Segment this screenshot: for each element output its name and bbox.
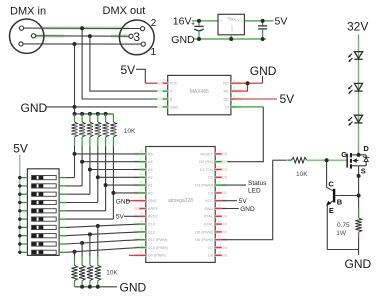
svg-text:GND: GND — [116, 198, 131, 205]
wire DMX data 2 (XLR pin3) — [36, 35, 129, 37]
wire switch 4 to pin A2 — [66, 202, 98, 204]
atmega pin A0 (left) — [134, 191, 146, 194]
svg-text:A0: A0 — [148, 191, 153, 195]
svg-text:XTAL: XTAL — [204, 215, 213, 219]
atmega pin A3 (left) — [134, 168, 146, 171]
svg-text:18: 18 — [139, 227, 143, 231]
svg-text:22: 22 — [139, 196, 143, 200]
atmega pin D9 (PWM) (left) — [134, 254, 146, 257]
svg-text:32V: 32V — [347, 19, 368, 33]
wire switch 3 to pin A3 — [66, 193, 90, 195]
svg-text:MAX485: MAX485 — [190, 89, 209, 95]
wire switch 8 to pin D12 — [66, 232, 140, 236]
svg-text:20: 20 — [139, 211, 143, 215]
DIP switch S1 — [27, 169, 59, 256]
resistor R6 10K — [112, 114, 114, 122]
svg-text:D2: D2 — [208, 176, 213, 180]
LED D3 — [354, 115, 362, 122]
red wire atmega D9 — [129, 254, 139, 256]
svg-text:10K: 10K — [296, 171, 308, 178]
svg-text:XTAL: XTAL — [204, 223, 213, 227]
switch 10 — [20, 251, 28, 253]
svg-text:GND: GND — [205, 207, 214, 211]
svg-text:21: 21 — [139, 203, 143, 207]
svg-text:1: 1 — [150, 46, 156, 58]
MOSFET Q1 channel — [350, 153, 352, 157]
svg-text:GND: GND — [171, 34, 195, 46]
svg-text:5V: 5V — [275, 15, 288, 27]
switch 3 — [20, 193, 28, 195]
wire DMX data 1 (XLR pin2) — [24, 27, 141, 29]
svg-text:DMX out: DMX out — [103, 5, 146, 17]
wire switch 6 to pin A0 — [66, 218, 114, 220]
svg-text:OUT: OUT — [236, 19, 242, 23]
wire switch 1 to pin A5 — [66, 177, 75, 179]
atmega pin D8 (right) — [215, 254, 227, 257]
resistor R7 10K (pull-down) — [97, 226, 99, 257]
MAX485 pin DI — [231, 105, 241, 108]
transistor Q2 base wire — [335, 195, 358, 197]
wire switch 7 to pin D13 — [66, 224, 140, 227]
wire 5V rail — [19, 155, 21, 253]
svg-text:D13: D13 — [148, 223, 155, 227]
wire switch 5 to pin A1 — [66, 210, 106, 212]
atmega pin D11 (PWM) (left) — [134, 238, 146, 241]
switch 5 — [20, 210, 28, 212]
wire RE join — [236, 83, 248, 91]
atmega pin D1 (TX) (right) — [215, 168, 227, 171]
svg-text:GND: GND — [240, 206, 255, 213]
atmega pin D13 (left) — [134, 223, 146, 226]
atmega pin D12 (left) — [134, 230, 146, 233]
svg-text:D10 (PWM): D10 (PWM) — [148, 246, 169, 250]
svg-text:3: 3 — [133, 30, 140, 44]
wire 5V label to MAX485 VCC — [136, 69, 145, 83]
MAX485 pin RE — [231, 90, 241, 93]
wire DMX shield (XLR pin1) — [23, 43, 141, 45]
svg-text:10: 10 — [218, 219, 222, 223]
resistor R10 10K (pull-down) — [74, 252, 76, 257]
svg-text:5V: 5V — [116, 214, 125, 221]
wire to MAX485 B — [82, 28, 163, 99]
svg-text:A: A — [170, 90, 173, 94]
GND label (atmega left) — [126, 200, 139, 202]
MOSFET Q1 gate bar — [346, 154, 348, 168]
IC U2 MAX485 — [168, 75, 231, 114]
atmega pin RESET (right) — [215, 152, 227, 155]
svg-text:GND: GND — [250, 64, 277, 78]
resistor R9 10K (pull-down) — [81, 243, 83, 257]
svg-text:A3: A3 — [148, 168, 153, 172]
svg-text:D1 (TX): D1 (TX) — [200, 168, 214, 172]
svg-text:DE: DE — [224, 98, 230, 102]
svg-text:B: B — [337, 198, 343, 207]
switch 4 — [20, 202, 28, 204]
svg-text:19: 19 — [139, 219, 143, 223]
switch 2 — [20, 185, 28, 187]
svg-text:10K: 10K — [124, 128, 136, 135]
svg-text:G: G — [341, 150, 347, 159]
svg-text:RESET: RESET — [200, 152, 213, 156]
svg-text:Status: Status — [248, 180, 267, 187]
wire switch 2 to pin A4 — [66, 185, 83, 187]
wire shield to GND bus — [74, 44, 76, 114]
junction dots DMX — [80, 26, 84, 30]
regulator U3 7805 — [218, 14, 244, 35]
LED D2 — [354, 83, 362, 90]
wire atmega GND to GND — [222, 208, 239, 210]
svg-text:23: 23 — [139, 188, 143, 192]
svg-text:GND: GND — [148, 199, 157, 203]
MAX485 pin B — [157, 98, 167, 101]
svg-text:E: E — [329, 206, 334, 215]
atmega pin D2 (right) — [215, 176, 227, 179]
net highlight DMX data wires — [44, 26, 129, 31]
wire atmega D6 to gate resistor — [222, 160, 273, 240]
resistor R1 10K — [74, 114, 76, 122]
svg-text:DI: DI — [225, 105, 229, 109]
svg-text:GND: GND — [21, 101, 48, 115]
resistor R11 10K (gate) — [273, 159, 288, 161]
svg-text:D4: D4 — [208, 191, 213, 195]
atmega pin A2 (left) — [134, 176, 146, 179]
svg-text:17: 17 — [139, 235, 143, 239]
switch 9 — [20, 243, 28, 245]
svg-text:S: S — [361, 167, 366, 176]
atmega pin D5 (PWM) (right) — [215, 230, 227, 233]
wire DE to 5V — [236, 98, 277, 100]
MAX485 pin A — [157, 90, 167, 93]
svg-text:VCC: VCC — [205, 199, 213, 203]
wire emitter to sense resistor / GND — [327, 249, 358, 251]
MAX485 pin VCC — [157, 82, 167, 85]
atmega pin A1 (left) — [134, 184, 146, 187]
svg-text:24: 24 — [139, 180, 143, 184]
wire regulator ground rail — [194, 38, 266, 40]
svg-text:D7: D7 — [208, 246, 213, 250]
svg-text:2: 2 — [151, 18, 157, 29]
wire atmega VCC to 5V — [222, 200, 237, 202]
svg-text:IN: IN — [220, 19, 223, 23]
wire switch 10 to pin D10 — [66, 248, 140, 253]
atmega pin D10 (PWM) (left) — [134, 246, 146, 249]
wire RO to GND — [236, 82, 263, 84]
top pull-down bus — [75, 113, 114, 115]
svg-text:atmega328: atmega328 — [168, 198, 193, 204]
resistor R5 10K — [105, 114, 107, 122]
resistor R12 0.75 1W — [358, 207, 360, 218]
atmega pin AREF (left) — [134, 207, 146, 210]
resistor R2 10K — [81, 114, 83, 122]
wire gate node to collector — [327, 160, 334, 191]
wire DI to atmega D0 — [236, 106, 263, 108]
svg-text:25: 25 — [139, 172, 143, 176]
svg-text:RE: RE — [224, 90, 230, 94]
svg-text:5V: 5V — [239, 198, 248, 205]
svg-text:LED: LED — [248, 188, 261, 195]
svg-text:C: C — [328, 180, 334, 189]
svg-text:D11 (PWM): D11 (PWM) — [148, 238, 168, 242]
atmega pin VCC (right) — [215, 199, 227, 202]
svg-text:15: 15 — [139, 250, 143, 254]
resistor R8 10K (pull-down) — [89, 234, 91, 256]
atmega pin A4 (left) — [134, 160, 146, 163]
svg-text:RO: RO — [223, 82, 229, 86]
wire GND label to MAX485 GND — [46, 106, 163, 108]
resistor R3 10K — [89, 114, 91, 122]
capacitor C2 (output) — [262, 21, 264, 26]
wire to MAX485 A — [90, 36, 163, 91]
svg-text:A4: A4 — [148, 160, 153, 164]
atmega pin AVCC (left) — [134, 215, 146, 218]
svg-text:5V: 5V — [13, 141, 28, 155]
svg-text:D9 (PWM): D9 (PWM) — [148, 254, 166, 258]
svg-text:AVCC: AVCC — [148, 215, 159, 219]
svg-text:5V: 5V — [121, 63, 136, 77]
svg-text:D: D — [363, 144, 369, 153]
svg-text:78xx: 78xx — [227, 17, 237, 22]
svg-text:GND: GND — [230, 25, 234, 33]
svg-text:GND: GND — [345, 257, 372, 271]
wire gate resistor to MOSFET gate — [307, 159, 347, 162]
svg-text:16V: 16V — [173, 15, 192, 27]
LED D1 — [354, 52, 362, 59]
switch 1 — [20, 177, 28, 179]
wire regulator output 5V — [244, 20, 273, 22]
bottom pull-down bus — [75, 286, 118, 288]
svg-text:11: 11 — [218, 227, 221, 231]
svg-text:16: 16 — [139, 242, 143, 246]
atmega pin D0 (RX) (right) — [215, 160, 227, 163]
XLR connector J1 DMX in — [10, 19, 44, 53]
svg-text:D12: D12 — [148, 230, 155, 234]
svg-text:1W: 1W — [336, 230, 347, 237]
svg-text:B: B — [170, 98, 173, 102]
atmega pin D3 (PWM) (right) — [215, 184, 227, 187]
svg-text:D8: D8 — [208, 254, 213, 258]
svg-text:D6 (PWM): D6 (PWM) — [195, 238, 213, 242]
svg-text:A1: A1 — [148, 184, 153, 188]
MOSFET Q1 source link — [352, 165, 366, 167]
capacitor C1 (input, polarized) — [198, 21, 200, 27]
svg-text:0.75: 0.75 — [337, 222, 350, 229]
MOSFET Q1 body diode — [365, 155, 367, 166]
svg-text:14: 14 — [218, 250, 222, 254]
atmega pin D6 (PWM) (right) — [215, 238, 227, 241]
svg-text:28: 28 — [139, 149, 143, 153]
atmega pin D7 (right) — [215, 246, 227, 249]
svg-text:GND: GND — [170, 105, 179, 109]
svg-text:GND: GND — [120, 281, 147, 295]
switch 7 — [20, 226, 28, 228]
wire switch 9 to pin D11 — [66, 240, 140, 244]
wire atmega D3 to status LED — [222, 184, 246, 186]
transistor Q2 emitter — [327, 201, 333, 250]
atmega pin XTAL (right) — [215, 215, 227, 218]
IC U1 atmega328 — [146, 147, 215, 263]
svg-text:5V: 5V — [280, 92, 295, 106]
svg-text:DMX in: DMX in — [10, 6, 46, 18]
svg-text:A2: A2 — [148, 176, 153, 180]
svg-text:D5 (PWM): D5 (PWM) — [195, 230, 213, 234]
MOSFET Q1 body arrow — [352, 158, 357, 162]
svg-text:10K: 10K — [106, 270, 118, 277]
transistor Q2 base bar — [333, 189, 335, 203]
svg-text:27: 27 — [139, 157, 143, 161]
atmega pin GND (left) — [134, 199, 146, 202]
svg-text:D3 (PWM): D3 (PWM) — [195, 184, 213, 188]
atmega pin GND (right) — [215, 207, 227, 210]
5V label (atmega AVCC) — [124, 215, 139, 217]
switch 6 — [20, 218, 28, 220]
atmega pin XTAL (right) — [215, 223, 227, 226]
atmega pin D4 (right) — [215, 191, 227, 194]
svg-text:26: 26 — [139, 164, 143, 168]
svg-text:A5: A5 — [148, 152, 153, 156]
svg-text:13: 13 — [218, 242, 222, 246]
XLR connector J2 DMX out — [119, 20, 154, 55]
MAX485 pin GND — [157, 105, 167, 108]
svg-text:12: 12 — [218, 235, 222, 239]
atmega pin A5 (left) — [134, 152, 146, 155]
MAX485 pin DE — [231, 98, 241, 101]
junction dots regulator — [197, 19, 201, 23]
svg-text:D0 (RX): D0 (RX) — [199, 160, 213, 164]
svg-text:VCC: VCC — [170, 82, 178, 86]
resistor R4 10K — [97, 114, 99, 122]
MAX485 pin RO — [231, 82, 241, 85]
wire 32V to LED string — [357, 35, 360, 155]
switch 8 — [20, 235, 28, 237]
wire MOSFET source down — [358, 166, 360, 207]
wire 16V input — [192, 20, 218, 22]
MOSFET Q1 drain link — [352, 154, 366, 156]
svg-text:AREF: AREF — [148, 207, 159, 211]
